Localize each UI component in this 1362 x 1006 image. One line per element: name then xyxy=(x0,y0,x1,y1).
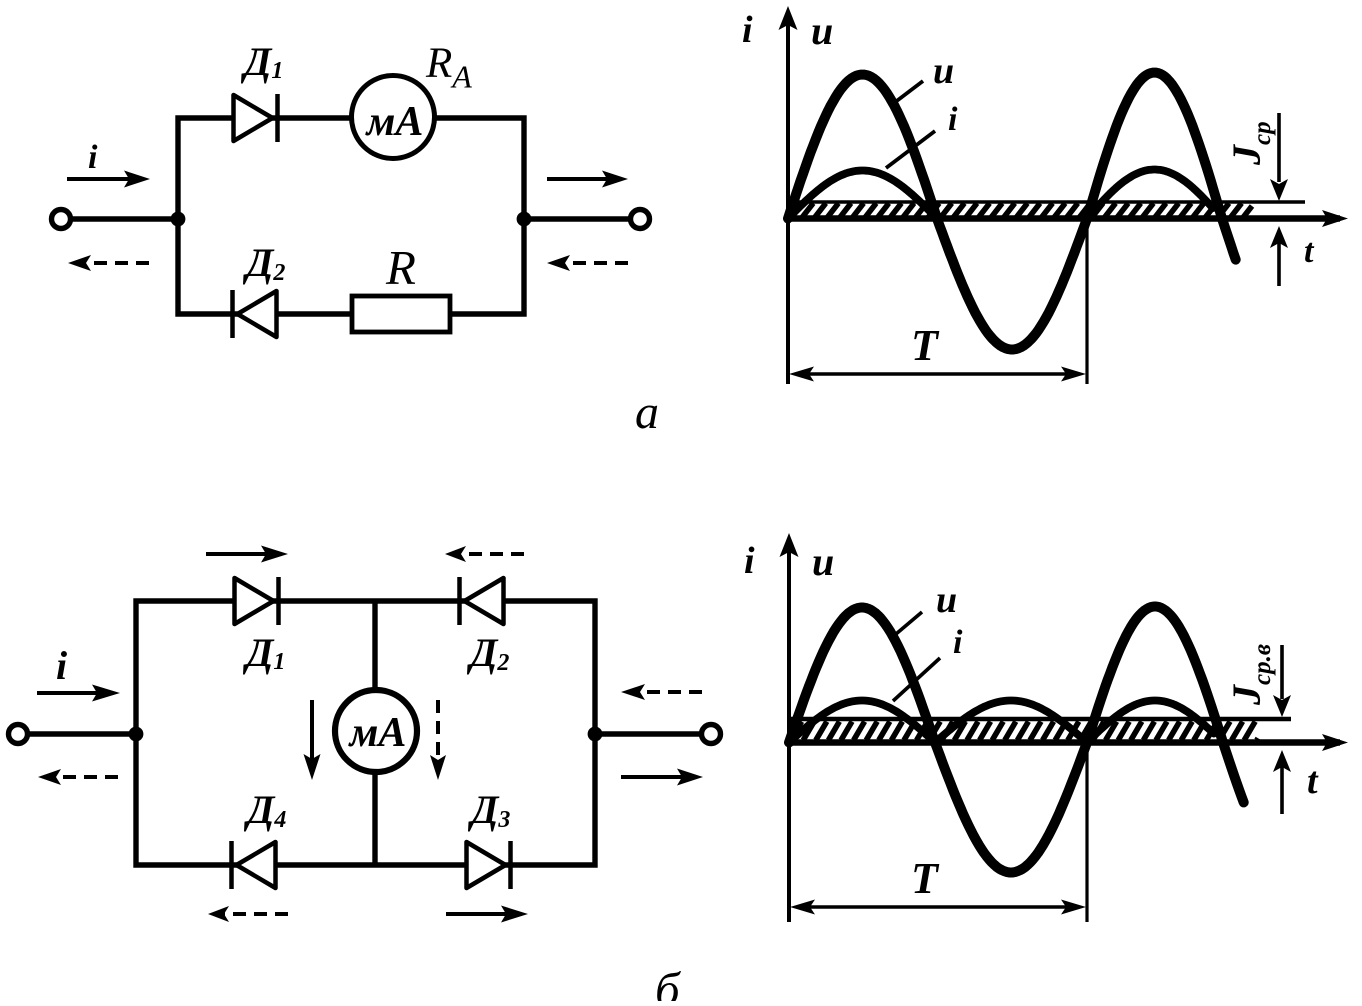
svg-text:мА: мА xyxy=(365,99,424,145)
svg-text:t: t xyxy=(1307,760,1319,802)
svg-text:i: i xyxy=(88,139,98,176)
svg-text:u: u xyxy=(811,8,833,53)
svg-text:u: u xyxy=(812,539,834,584)
svg-text:u: u xyxy=(933,50,954,92)
svg-text:i: i xyxy=(948,101,958,138)
svg-text:i: i xyxy=(56,643,67,688)
svg-text:i: i xyxy=(744,540,755,582)
svg-text:а: а xyxy=(635,386,659,439)
svg-text:T: T xyxy=(911,854,940,903)
svg-text:T: T xyxy=(911,321,940,370)
svg-text:t: t xyxy=(1304,233,1315,270)
svg-text:u: u xyxy=(936,579,957,621)
svg-text:мА: мА xyxy=(348,710,407,756)
svg-text:i: i xyxy=(953,624,963,661)
svg-text:i: i xyxy=(742,9,753,51)
svg-text:б: б xyxy=(655,962,681,1001)
svg-text:R: R xyxy=(385,240,416,295)
